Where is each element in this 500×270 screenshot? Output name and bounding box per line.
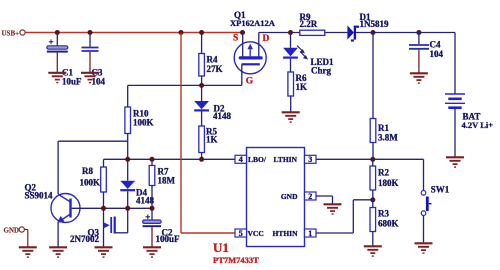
svg-text:GND: GND: [281, 192, 298, 201]
svg-text:C4: C4: [430, 40, 441, 50]
junction dot LED1/drain net: [288, 30, 293, 35]
junction dot Q1 source/rail: [240, 30, 245, 35]
junction dot R7/LBO: [150, 157, 155, 162]
junction dot R7/C2: [150, 206, 155, 211]
wire VCC trace (red): [180, 33, 182, 234]
resistor R10: [125, 107, 154, 141]
svg-text:5: 5: [239, 229, 243, 238]
resistor R3: [370, 200, 399, 246]
junction dot C4: [416, 30, 421, 35]
wire Q2 collector to R10 bottom: [58, 140, 128, 142]
wire pin1 HTHIN to R2/R3 node: [316, 232, 353, 234]
wire pin3 LTHIN net to R1/R2 node and SW1: [316, 158, 424, 160]
Q2 collector: [58, 194, 70, 202]
svg-text:R8: R8: [82, 166, 93, 176]
svg-text:4148: 4148: [213, 111, 232, 121]
junction dot D4 cathode/Q3 drain: [125, 206, 130, 211]
Q2 emitter with arrow: [59, 214, 71, 222]
svg-text:S: S: [233, 34, 238, 44]
junction dot D1/R1: [371, 30, 376, 35]
resistor R7: [149, 159, 175, 208]
transistor Q2 (SS9014 NPN): [25, 183, 81, 247]
ground (Q3 source): [95, 247, 113, 257]
svg-text:U1: U1: [213, 240, 229, 255]
svg-text:R2: R2: [378, 168, 389, 178]
LED1 arrows: [297, 46, 304, 53]
ground (C1): [48, 73, 66, 83]
ground (Q2 emitter): [49, 247, 67, 257]
svg-text:1N5819: 1N5819: [360, 19, 389, 29]
svg-text:3.8M: 3.8M: [378, 133, 398, 143]
resistor R6: [288, 72, 307, 112]
transistor Q1 (XP162A12A P-MOSFET): [230, 10, 276, 87]
svg-text:R3: R3: [378, 208, 389, 218]
pin 3 LTHIN: [305, 155, 317, 163]
svg-text:LBO/: LBO/: [248, 155, 267, 164]
transistor Q3 (2N7002): [70, 208, 128, 246]
battery BAT: [445, 33, 493, 157]
svg-text:1K: 1K: [206, 135, 218, 145]
svg-text:USB+: USB+: [2, 30, 20, 38]
resistor R1: [370, 33, 398, 160]
svg-text:104: 104: [430, 49, 444, 59]
svg-text:2: 2: [308, 192, 312, 201]
svg-text:VCC: VCC: [248, 229, 264, 238]
svg-text:100K: 100K: [133, 118, 154, 128]
diode D4 4148: [120, 181, 154, 209]
capacitor C2: [143, 208, 180, 246]
ground (SW1): [415, 243, 433, 253]
wire D1 cathode to battery: [373, 32, 455, 34]
Q1 substrate arrow: [249, 47, 251, 57]
svg-text:PT7M7433T: PT7M7433T: [213, 255, 259, 265]
junction dot C1/rail: [55, 30, 60, 35]
junction dot C3/rail: [88, 30, 93, 35]
svg-text:SS9014: SS9014: [25, 191, 54, 201]
capacitor C1: [47, 33, 82, 87]
ground (R6): [282, 112, 300, 122]
switch SW1: [421, 159, 450, 242]
Q1 drain lead: [258, 33, 260, 58]
wire top rail (red): [25, 32, 242, 34]
wire R10 bottom down to LBO net and D4 anode: [127, 141, 129, 181]
wire pin2 GND to ground: [316, 195, 333, 197]
wire Q1 drain to R9 (blue): [259, 32, 300, 34]
connector USB+: [2, 30, 26, 38]
wire LBO net (R8 - pin4): [104, 158, 235, 160]
ground (R3): [364, 246, 382, 256]
connector GND: [4, 226, 28, 246]
junction dot R4/rail: [199, 30, 204, 35]
resistor R8: [80, 159, 107, 208]
capacitor C3: [82, 33, 106, 87]
junction dot R5/LBO: [199, 157, 204, 162]
svg-text:100K: 100K: [80, 178, 101, 188]
capacitor C4: [409, 33, 444, 73]
resistor R2: [370, 159, 399, 200]
svg-text:104: 104: [92, 77, 106, 87]
Q1 gate bar: [242, 63, 260, 65]
ground (battery): [446, 157, 464, 167]
svg-text:HTHIN: HTHIN: [272, 229, 298, 238]
wire gate net (Q1.G - R4/D2 - R10): [128, 84, 242, 86]
svg-text:100uF: 100uF: [156, 234, 181, 244]
ground (C3): [81, 73, 99, 83]
junction dot R10/D4/LBO: [125, 157, 130, 162]
wire Q2 base net (y=208.3): [72, 207, 152, 209]
junction dot R4/D2/gate: [199, 83, 204, 88]
svg-text:10uF: 10uF: [62, 77, 82, 87]
svg-text:XP162A12A: XP162A12A: [230, 18, 276, 28]
junction dot R8/Q3 source: [101, 206, 106, 211]
svg-text:GND: GND: [4, 226, 20, 234]
svg-text:1: 1: [308, 229, 312, 238]
Q1 gate lead: [241, 65, 243, 86]
svg-text:4: 4: [239, 155, 243, 164]
pin 4 LBO: [235, 155, 247, 163]
svg-text:R1: R1: [378, 123, 389, 133]
svg-text:G: G: [246, 77, 254, 87]
diode D2 4148: [194, 85, 231, 126]
Q1 channel bar: [239, 56, 263, 59]
svg-text:18M: 18M: [158, 176, 176, 186]
svg-text:1K: 1K: [296, 82, 308, 92]
ground (pin2): [324, 204, 342, 214]
ground (GND connector): [19, 247, 37, 257]
Q1 source lead: [242, 33, 244, 58]
svg-text:2.2R: 2.2R: [300, 19, 318, 29]
junction dot R2/R3/HTHIN: [370, 197, 375, 202]
resistor R9: [300, 12, 348, 36]
svg-text:680K: 680K: [378, 218, 399, 228]
IC U1 PT7M7433T: [213, 148, 316, 266]
svg-text:SW1: SW1: [431, 184, 450, 194]
svg-text:4.2V Li+: 4.2V Li+: [462, 120, 494, 130]
LED1: [283, 33, 334, 76]
resistor R4: [199, 33, 223, 86]
pin 2 GND: [305, 192, 317, 200]
pin 5 VCC: [235, 229, 247, 237]
ground (C2): [143, 247, 161, 257]
diode D1 1N5819: [347, 12, 389, 42]
Q2 base bar: [69, 199, 71, 218]
pin 1 HTHIN: [305, 229, 317, 237]
svg-text:27K: 27K: [207, 64, 223, 74]
svg-text:LTHIN: LTHIN: [274, 155, 298, 164]
svg-text:3: 3: [308, 155, 312, 164]
svg-text:180K: 180K: [378, 178, 399, 188]
svg-text:Chrg: Chrg: [311, 66, 331, 76]
resistor R5: [199, 126, 218, 159]
ground (C4): [410, 73, 428, 83]
junction dot VCC trace/rail: [179, 30, 184, 35]
svg-text:2N7002: 2N7002: [70, 234, 99, 244]
junction dot R1/R2/LTHIN: [370, 157, 375, 162]
svg-text:D: D: [263, 34, 270, 44]
